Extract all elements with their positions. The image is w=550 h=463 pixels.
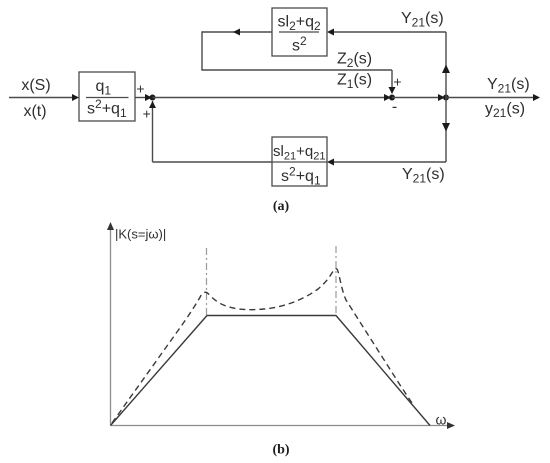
wire G3 output left (153, 161, 273, 163)
wire S2 to node N1 (392, 97, 441, 99)
solid response trapezoid (111, 316, 431, 426)
arrowhead into node S2 (384, 94, 391, 101)
svg-text:ω: ω (436, 412, 447, 428)
svg-text:+: + (136, 81, 144, 97)
svg-text:|K(s=jω)|: |K(s=jω)| (115, 227, 166, 242)
dash-dot guide right (335, 246, 337, 316)
arrowhead into block G2 (327, 29, 334, 36)
block G2 (sl2+q2)/s2 (272, 8, 327, 56)
dashed response curve (112, 269, 412, 423)
arrowhead down on bottom-loop dropper (442, 123, 450, 132)
arrowhead into node S1 (145, 94, 152, 101)
arrowhead down into S2 (389, 87, 396, 94)
wire G2 output left (202, 31, 272, 33)
wire G1 to summing node S1 (135, 97, 147, 99)
fraction bar G1 (86, 97, 129, 99)
node N1 junction dot (443, 95, 449, 101)
x axis of plot (111, 425, 450, 427)
svg-text:-: - (392, 99, 397, 116)
arrowhead y axis (107, 222, 114, 230)
arrowhead left on G2 output (233, 29, 240, 36)
wire N1 down to bottom loop (445, 98, 447, 163)
fraction bar G3 (272, 161, 327, 163)
arrowhead up on top-loop riser (442, 65, 450, 74)
arrowhead up into S1 (149, 101, 156, 108)
wire N1 up to top loop (445, 32, 447, 98)
svg-text:(b): (b) (272, 443, 289, 458)
wire top loop return horizontal (201, 69, 392, 71)
wire bottom loop horizontal into block G3 (329, 161, 446, 163)
wire input x (9, 97, 74, 99)
svg-text:x(t): x(t) (23, 103, 46, 120)
block G1 q1/(s2+q1) (79, 72, 135, 121)
wire S1 to summing node S2 (153, 97, 389, 99)
node S1 junction dot (150, 95, 156, 101)
wire top loop horizontal into block G2 (329, 31, 446, 33)
wire output y21 (446, 97, 536, 99)
fraction bar G2 (279, 31, 319, 33)
y axis of plot (110, 228, 112, 426)
node S2 junction dot (389, 95, 395, 101)
arrowhead into block G1 (72, 94, 79, 101)
arrowhead into block G3 (327, 159, 334, 166)
svg-text:(a): (a) (273, 199, 290, 214)
wire bottom loop riser into S1 (152, 101, 154, 162)
block G3 (sl21+q21)/(s2+q1) (272, 137, 327, 186)
svg-text:x(S): x(S) (21, 77, 50, 94)
arrowhead into node N1 (438, 94, 445, 101)
dash-dot guide left (206, 248, 208, 316)
wire drop into S2 (391, 70, 393, 93)
svg-text:Z2(s): Z2(s) (337, 51, 372, 71)
wire top loop left drop (201, 31, 203, 70)
svg-text:Z1(s): Z1(s) (337, 72, 372, 92)
arrowhead output (533, 94, 540, 101)
arrowhead x axis (447, 422, 455, 429)
